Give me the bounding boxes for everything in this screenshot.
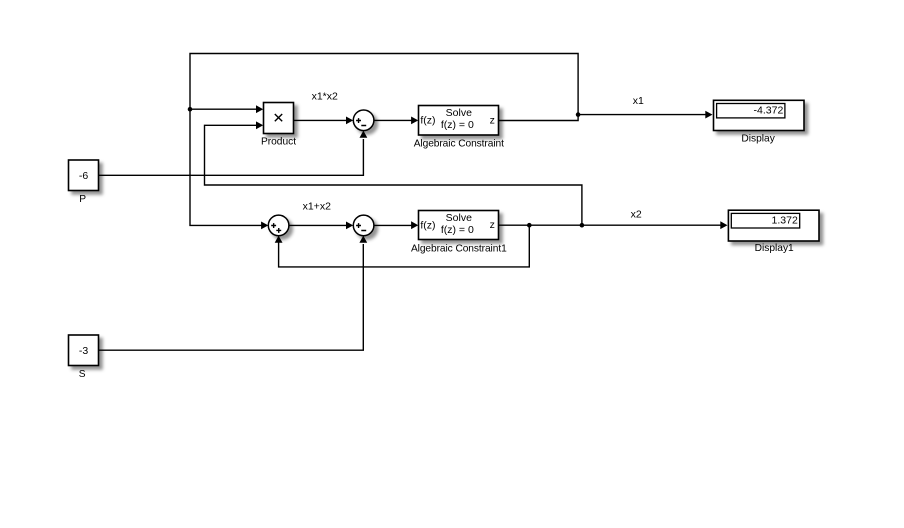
arrowhead into Algebraic Constraint input [411, 117, 418, 125]
wire: x1 from node B to Display [578, 114, 707, 116]
constant block S value -3 [69, 335, 99, 366]
svg-text:z: z [490, 219, 495, 231]
node B junction dot [576, 112, 581, 117]
arrowhead into Product input 1 [256, 105, 263, 113]
svg-text:f(z) = 0: f(z) = 0 [441, 224, 474, 236]
svg-text:z: z [490, 114, 495, 126]
svg-text:-6: -6 [79, 170, 88, 182]
arrowhead into Product input 2 [256, 121, 263, 129]
arrowhead into Sum1 left input [346, 117, 353, 125]
arrowhead into Display1 input [720, 221, 727, 229]
svg-text:Algebraic Constraint1: Algebraic Constraint1 [411, 244, 507, 255]
arrowhead into Sum3 bottom input [359, 236, 367, 243]
node D junction dot [580, 223, 585, 228]
svg-text:Solve: Solve [446, 212, 472, 224]
wire: x2 feedback from node C down and left to Sum2 plus input [279, 225, 530, 267]
arrowhead into Sum2 bottom input [275, 236, 283, 243]
wire: x2 from Algebraic Constraint1 z output to Display1 [499, 224, 722, 226]
sum block Sum1 plus-minus [353, 110, 374, 131]
svg-text:x1*x2: x1*x2 [312, 91, 338, 103]
wire: S constant to Sum3 minus input [99, 244, 364, 350]
arrowhead into Display input [705, 111, 712, 119]
svg-text:f(z): f(z) [420, 115, 435, 127]
svg-text:1.372: 1.372 [772, 215, 798, 227]
svg-text:x2: x2 [631, 209, 642, 221]
svg-text:Product: Product [261, 136, 296, 147]
display block Display1 value 1.372 [728, 210, 819, 241]
node A junction dot [188, 107, 193, 112]
sum block Sum3 plus-minus [353, 215, 374, 236]
wire: feedback x1 from node B up, across top, down left side to Sum2 [190, 54, 578, 226]
arrowhead into Sum1 bottom input [360, 131, 368, 138]
wire: P constant to Sum1 minus input [99, 139, 364, 175]
wire: Sum2 output to Sum3 [289, 224, 347, 226]
svg-text:Algebraic Constraint: Algebraic Constraint [414, 139, 504, 150]
svg-text:x1+x2: x1+x2 [303, 200, 331, 212]
wire: x2 feedback from node D up and left to Product input 2 [205, 125, 582, 225]
svg-text:Solve: Solve [446, 107, 472, 119]
block Algebraic Constraint [419, 106, 499, 136]
svg-text:-3: -3 [79, 345, 88, 357]
wire: Sum1 output to Algebraic Constraint [374, 119, 412, 121]
node C junction dot [527, 223, 532, 228]
wire: Product output to Sum1 [294, 119, 348, 121]
svg-text:P: P [79, 194, 86, 205]
arrowhead into Sum2 left input [261, 222, 268, 230]
arrowhead into Algebraic Constraint1 input [411, 221, 418, 229]
svg-text:Display: Display [741, 133, 775, 144]
block Algebraic Constraint1 [419, 211, 499, 240]
svg-text:f(z) = 0: f(z) = 0 [441, 119, 474, 131]
svg-text:Display1: Display1 [755, 243, 794, 254]
constant block P value -6 [69, 160, 99, 191]
product block Product [264, 103, 294, 134]
svg-text:f(z): f(z) [420, 219, 435, 231]
svg-text:-4.372: -4.372 [754, 105, 784, 117]
display block Display value -4.372 [714, 100, 805, 130]
svg-text:S: S [79, 369, 86, 380]
sum block Sum2 plus-plus [268, 215, 289, 236]
arrowhead into Sum3 left input [346, 222, 353, 230]
wire: Sum3 output to Algebraic Constraint1 [374, 224, 412, 226]
wire: x1 branch from node A to Product input 1 [190, 108, 257, 110]
svg-text:x1: x1 [633, 95, 644, 107]
